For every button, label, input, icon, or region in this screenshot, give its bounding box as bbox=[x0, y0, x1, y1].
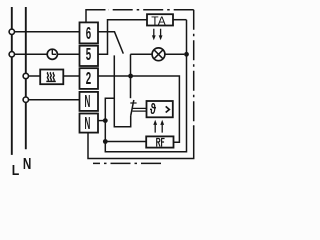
svg-text:5: 5 bbox=[86, 45, 91, 65]
svg-text:N: N bbox=[84, 90, 90, 111]
svg-text:N: N bbox=[84, 112, 90, 133]
svg-text:ϑ: ϑ bbox=[150, 100, 156, 117]
svg-text:N: N bbox=[23, 156, 31, 173]
svg-text:L: L bbox=[12, 162, 20, 178]
svg-text:2: 2 bbox=[86, 69, 91, 89]
svg-text:TA: TA bbox=[151, 14, 165, 28]
svg-text:6: 6 bbox=[86, 24, 91, 44]
